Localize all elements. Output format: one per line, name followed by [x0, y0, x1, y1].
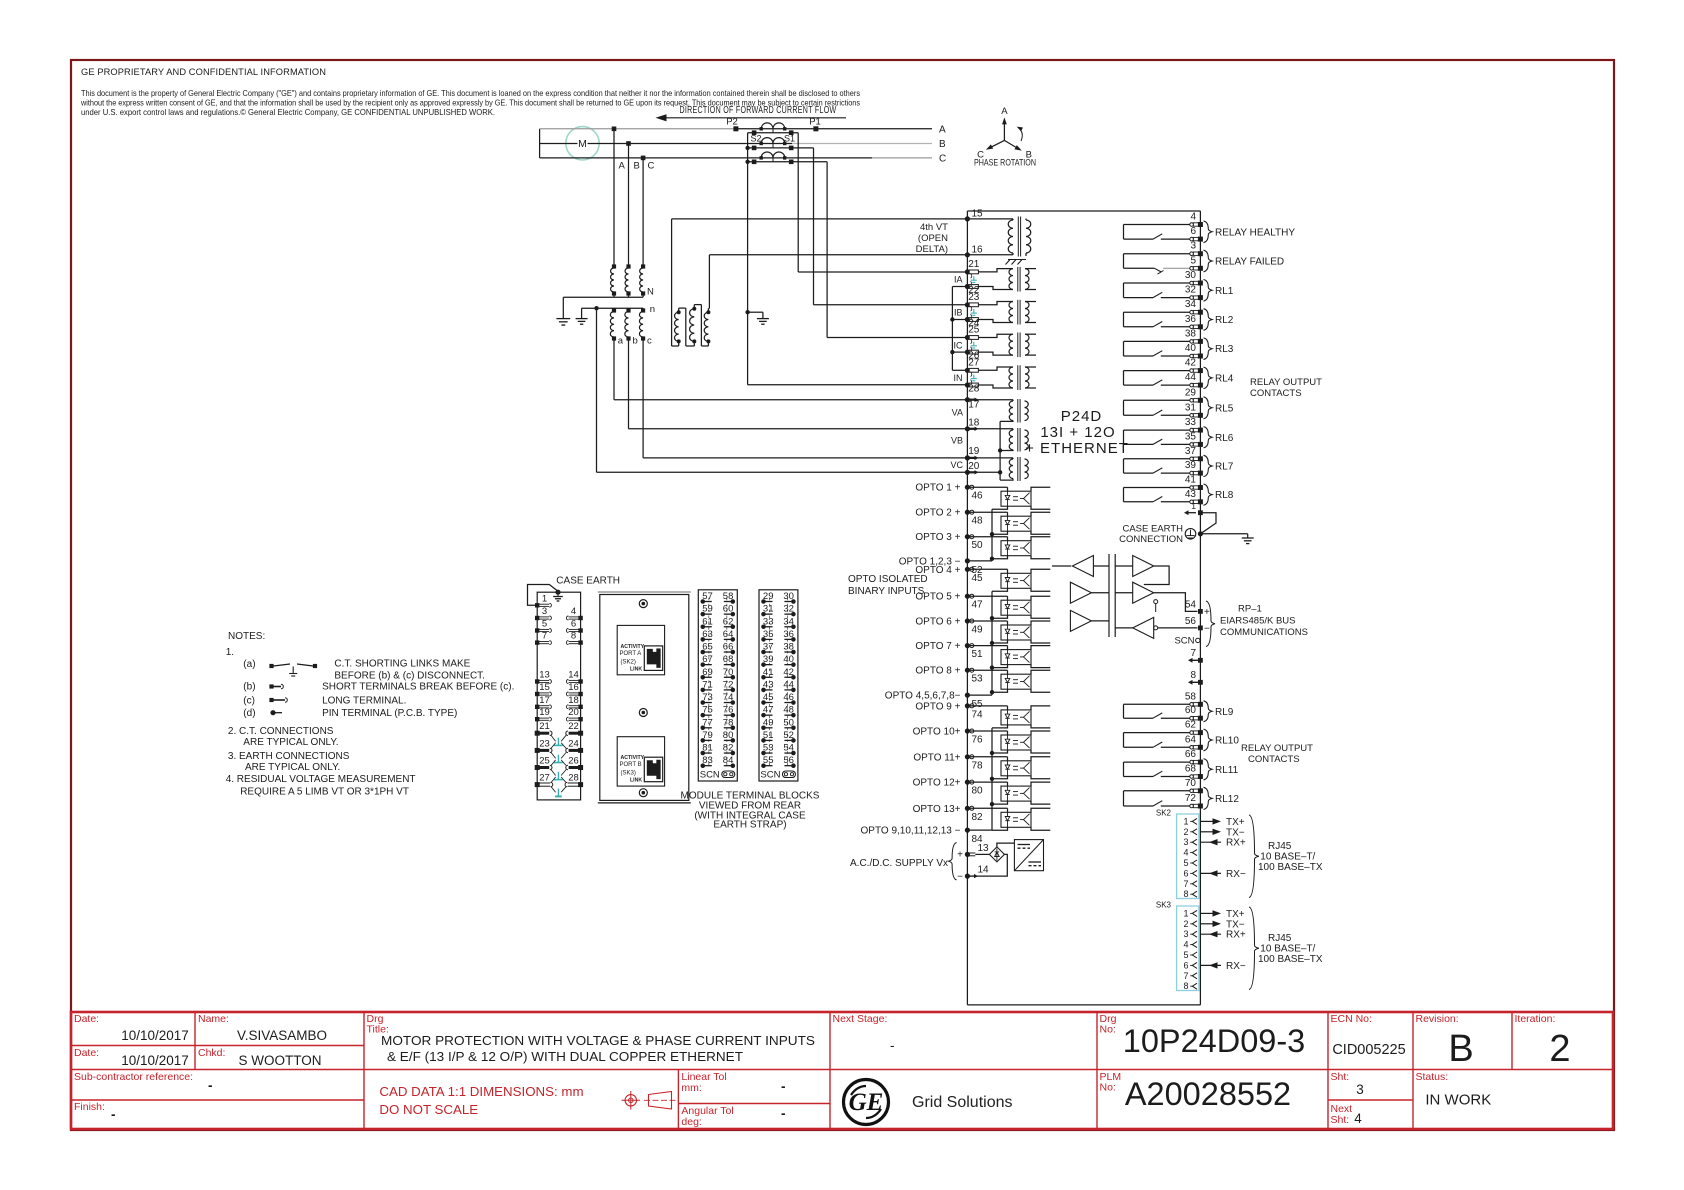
opto input OPTO5	[915, 592, 1050, 619]
svg-text:SCN: SCN	[1174, 636, 1194, 647]
svg-text:Revision:: Revision:	[1416, 1013, 1459, 1025]
svg-text:A.C./D.C. SUPPLY Vx: A.C./D.C. SUPPLY Vx	[850, 858, 948, 869]
svg-text:62: 62	[1185, 720, 1197, 731]
svg-text:PHASE ROTATION: PHASE ROTATION	[974, 158, 1036, 168]
relay output contact RELAY FAILED	[1124, 241, 1285, 274]
RS485 receiver U6	[1115, 617, 1197, 638]
CT phase B	[745, 138, 813, 151]
svg-text:RJ45: RJ45	[1268, 841, 1292, 852]
svg-text:74: 74	[972, 709, 984, 720]
svg-text:100 BASE–TX: 100 BASE–TX	[1258, 954, 1323, 965]
note 4	[226, 774, 416, 798]
wire b to terminal 18	[629, 339, 968, 429]
svg-text:OPTO 13+: OPTO 13+	[913, 804, 961, 815]
note 1	[226, 647, 234, 658]
svg-text:RL5: RL5	[1215, 403, 1234, 414]
svg-text:33: 33	[763, 616, 774, 627]
note 1c symbol	[243, 696, 287, 707]
svg-text:(SK2): (SK2)	[621, 659, 636, 665]
ethernet port SK2	[1156, 809, 1199, 900]
CT phase A	[748, 123, 799, 144]
svg-text:23: 23	[968, 292, 980, 303]
svg-text:+: +	[957, 850, 963, 861]
svg-text:1: 1	[1183, 816, 1188, 826]
svg-text:REQUIRE A 5 LIMB VT OR 3: REQUIRE A 5 LIMB VT OR 3*1PH VT	[240, 787, 409, 798]
wire CT C S1 to terminal 25	[827, 162, 967, 338]
svg-text:SCN: SCN	[700, 770, 720, 781]
module terminal block A outline	[537, 592, 580, 800]
svg-text:ECN No:: ECN No:	[1331, 1013, 1372, 1025]
svg-text:80: 80	[972, 786, 984, 797]
svg-text:ACTIVITY: ACTIVITY	[621, 644, 645, 650]
opto input OPTO1	[915, 483, 1050, 510]
svg-text:RX−: RX−	[1226, 869, 1246, 880]
module blocks caption	[681, 791, 820, 831]
relay model label P24D 13I + 12O + ETHERNET	[1025, 408, 1129, 457]
svg-text:No:: No:	[1100, 1024, 1116, 1036]
module block B SCN	[700, 770, 735, 781]
svg-text:+ ETHERNET: + ETHERNET	[1025, 440, 1129, 457]
panel screw top	[639, 600, 647, 608]
svg-text:GE PROPRIETARY AND CONFIDENTIA: GE PROPRIETARY AND CONFIDENTIAL INFORMAT…	[81, 67, 326, 77]
wire CT S2 common to terminal 28	[748, 133, 968, 385]
relay output contact RL3	[1124, 328, 1234, 359]
svg-text:Status:: Status:	[1416, 1071, 1449, 1083]
Grid Solutions wordmark	[912, 1094, 1013, 1111]
svg-text:P24D: P24D	[1061, 408, 1103, 425]
svg-text:A: A	[939, 124, 946, 135]
svg-text:57: 57	[702, 591, 713, 602]
svg-text:IN: IN	[954, 373, 963, 383]
svg-text:-: -	[781, 1079, 786, 1094]
AC DC supply terminal 13	[957, 843, 989, 861]
svg-text:4: 4	[1183, 848, 1188, 858]
svg-text:CASE EARTH: CASE EARTH	[556, 576, 620, 587]
svg-text:TX+: TX+	[1226, 817, 1245, 828]
svg-text:20: 20	[968, 461, 980, 472]
svg-text:B: B	[1448, 1028, 1473, 1070]
svg-text:49: 49	[763, 717, 774, 728]
svg-text:RP–1: RP–1	[1238, 604, 1262, 615]
svg-text:Sht:: Sht:	[1331, 1114, 1350, 1126]
voltage input terminals 17-20	[950, 397, 979, 475]
opto input OPTO10	[913, 727, 1051, 754]
wire open delta to terminal 16	[709, 255, 967, 309]
svg-text:47: 47	[763, 705, 774, 716]
svg-text:6: 6	[571, 619, 576, 630]
svg-text:42: 42	[1185, 358, 1197, 369]
svg-text:n: n	[650, 304, 655, 315]
wire phase C to VT primary	[641, 156, 646, 266]
svg-text:ACTIVITY: ACTIVITY	[621, 755, 645, 761]
svg-text:41: 41	[1185, 475, 1197, 486]
svg-text:14: 14	[568, 670, 579, 681]
SK2 signal TX+	[1200, 817, 1245, 828]
svg-text:75: 75	[702, 705, 713, 716]
relay output contact RL6	[1124, 417, 1234, 448]
VT secondary earth	[576, 308, 588, 324]
svg-text:52: 52	[783, 730, 794, 741]
svg-text:TX−: TX−	[1226, 919, 1245, 930]
svg-text:OPTO 9 +: OPTO 9 +	[915, 701, 960, 712]
svg-text:84: 84	[723, 755, 734, 766]
svg-text:37: 37	[763, 642, 774, 653]
svg-text:77: 77	[702, 717, 713, 728]
relay P24D case outline	[967, 211, 1200, 1005]
note 1d symbol	[243, 708, 282, 719]
svg-text:22: 22	[568, 721, 579, 732]
svg-text:30: 30	[1185, 270, 1197, 281]
svg-text:47: 47	[972, 600, 984, 611]
relay CT IC	[978, 333, 1036, 358]
svg-text:RJ45: RJ45	[1268, 933, 1292, 944]
svg-text:51: 51	[972, 649, 984, 660]
relay output contact RL2	[1124, 299, 1234, 330]
svg-text:40: 40	[1185, 343, 1197, 354]
phase bus A	[540, 128, 932, 130]
svg-text:LINK: LINK	[630, 778, 642, 784]
svg-text:LINK: LINK	[630, 666, 642, 672]
wire n to terminal 20	[594, 306, 967, 472]
VT primary star earth	[556, 297, 570, 325]
terminal 1 case earth stud	[1184, 501, 1203, 515]
svg-text:RL8: RL8	[1215, 490, 1234, 501]
CT primary marker P2	[726, 117, 738, 132]
svg-text:4: 4	[571, 606, 576, 617]
note 2	[228, 726, 339, 748]
svg-text:3: 3	[1356, 1082, 1364, 1097]
svg-text:P2: P2	[726, 117, 738, 128]
current input terminals 21-28 with shorting links	[954, 259, 980, 395]
relay output contact RELAY HEALTHY	[1124, 212, 1296, 243]
relay CT IA	[978, 267, 1036, 292]
RS485 isolation barrier	[1109, 554, 1115, 637]
svg-text:29: 29	[1185, 387, 1197, 398]
svg-text:(OPEN: (OPEN	[918, 233, 948, 244]
svg-text:5: 5	[1183, 950, 1188, 960]
svg-text:41: 41	[763, 667, 774, 678]
svg-text:A20028552: A20028552	[1125, 1076, 1291, 1112]
svg-text:SK3: SK3	[1156, 901, 1172, 910]
panel screw middle	[639, 709, 647, 717]
svg-text:RELAY HEALTHY: RELAY HEALTHY	[1215, 227, 1295, 238]
svg-text:OPTO ISOLATED: OPTO ISOLATED	[848, 574, 928, 585]
phase rotation symbol	[974, 106, 1036, 168]
svg-text:C: C	[648, 161, 655, 172]
RS485 driver U5	[1115, 582, 1197, 612]
svg-text:RELAY FAILED: RELAY FAILED	[1215, 257, 1284, 268]
relay output contact RL1	[1124, 270, 1234, 301]
svg-text:68: 68	[723, 654, 734, 665]
svg-text:2: 2	[1549, 1028, 1570, 1070]
svg-text:PIN TERMINAL (P.C.B. TYPE): PIN TERMINAL (P.C.B. TYPE)	[322, 708, 457, 719]
svg-text:DIRECTION OF FORWARD CURREN: DIRECTION OF FORWARD CURRENT FLOW	[680, 105, 837, 116]
RJ45 socket SK3	[617, 737, 664, 786]
relay output contact RL10	[1124, 720, 1240, 751]
title block values	[111, 1023, 1571, 1126]
svg-text:100 BASE–TX: 100 BASE–TX	[1258, 862, 1323, 873]
svg-text:OPTO 4,5,6,7,8−: OPTO 4,5,6,7,8−	[885, 691, 961, 702]
motor feed bracket	[539, 129, 541, 158]
relay output contact RL7	[1124, 446, 1234, 477]
svg-text:40: 40	[783, 654, 794, 665]
SK2 signal TX-	[1200, 827, 1245, 838]
svg-text:71: 71	[702, 679, 713, 690]
module terminal block C outline	[759, 590, 798, 781]
svg-text:This document is the property: This document is the property of General…	[81, 89, 860, 98]
svg-text:4: 4	[1190, 212, 1196, 223]
opto input OPTO4	[915, 565, 1050, 592]
svg-text:35: 35	[1185, 431, 1197, 442]
svg-text:46: 46	[783, 692, 794, 703]
RS485 driver U4	[1115, 556, 1169, 585]
svg-text:+: +	[1204, 607, 1210, 618]
direction of forward current flow label	[680, 105, 837, 116]
relay output contact RL5	[1124, 387, 1234, 419]
svg-text:56: 56	[1185, 616, 1197, 627]
opto input OPTO12	[913, 778, 1051, 805]
svg-text:10/10/2017: 10/10/2017	[121, 1028, 189, 1043]
svg-text:IC: IC	[954, 340, 964, 350]
svg-text:18: 18	[968, 418, 980, 429]
svg-text:3: 3	[1183, 837, 1188, 847]
svg-text:RELAY OUTPUT: RELAY OUTPUT	[1250, 377, 1322, 388]
svg-text:55: 55	[972, 699, 984, 710]
svg-text:31: 31	[763, 604, 774, 615]
svg-text:42: 42	[783, 667, 794, 678]
relay VT VB	[967, 428, 1028, 452]
opto input OPTO6	[915, 617, 1050, 644]
VT wye secondary windings	[582, 304, 655, 347]
svg-text:6: 6	[1183, 960, 1188, 970]
svg-text:19: 19	[539, 707, 550, 718]
svg-text:CONTACTS: CONTACTS	[1250, 388, 1302, 399]
svg-text:10 BASE–T/: 10 BASE–T/	[1260, 944, 1315, 955]
svg-text:PORT B: PORT B	[620, 762, 642, 768]
svg-text:25: 25	[539, 756, 550, 767]
svg-text:39: 39	[763, 654, 774, 665]
first angle projection symbol	[622, 1091, 677, 1110]
svg-text:OPTO 11+: OPTO 11+	[913, 752, 960, 763]
svg-text:66: 66	[723, 642, 734, 653]
svg-text:7: 7	[1190, 648, 1196, 659]
svg-text:CID005225: CID005225	[1332, 1042, 1405, 1058]
svg-text:73: 73	[702, 692, 713, 703]
svg-text:COMMUNICATIONS: COMMUNICATIONS	[1220, 627, 1308, 638]
svg-text:SHORT TERMINALS BREAK BEFORE (: SHORT TERMINALS BREAK BEFORE (c).	[322, 682, 514, 693]
svg-text:OPTO 9,10,11,12,13 −: OPTO 9,10,11,12,13 −	[861, 826, 961, 837]
4th VT label	[916, 222, 949, 255]
svg-text:23: 23	[539, 738, 550, 749]
svg-text:-: -	[111, 1107, 116, 1122]
svg-text:60: 60	[1185, 705, 1197, 716]
direction arrow	[656, 114, 847, 121]
SK3 signal TX-	[1200, 919, 1245, 930]
svg-text:1: 1	[1183, 908, 1188, 918]
svg-text:38: 38	[1185, 328, 1197, 339]
svg-text:32: 32	[1185, 285, 1197, 296]
svg-text:RL3: RL3	[1215, 344, 1234, 355]
SK3 signal TX+	[1200, 909, 1245, 920]
svg-text:32: 32	[783, 604, 794, 615]
svg-text:79: 79	[702, 730, 713, 741]
svg-text:37: 37	[1185, 446, 1197, 457]
svg-text:15: 15	[539, 682, 550, 693]
svg-text:27: 27	[968, 357, 980, 368]
svg-text:58: 58	[723, 591, 734, 602]
svg-text:P1: P1	[809, 117, 821, 128]
svg-text:48: 48	[972, 516, 984, 527]
svg-text:(d): (d)	[243, 708, 255, 719]
svg-text:67: 67	[702, 654, 713, 665]
svg-text:58: 58	[1185, 691, 1197, 702]
svg-text:RL11: RL11	[1215, 765, 1239, 776]
title block labels	[74, 1013, 1555, 1128]
wire phase B to VT primary	[626, 141, 631, 266]
svg-text:78: 78	[723, 717, 734, 728]
svg-text:62: 62	[723, 616, 734, 627]
terminal 15	[965, 209, 983, 222]
svg-text:LONG TERMINAL.: LONG TERMINAL.	[322, 696, 406, 707]
svg-text:SK2: SK2	[1156, 809, 1172, 818]
module terminal block B outline	[698, 590, 737, 781]
RS485 buffer U3	[1070, 610, 1109, 631]
svg-text:76: 76	[972, 735, 984, 746]
svg-text:ARE TYPICAL ONLY.: ARE TYPICAL ONLY.	[245, 762, 340, 773]
module block B terminals	[701, 591, 736, 768]
svg-text:6: 6	[1190, 226, 1196, 237]
svg-text:-: -	[208, 1078, 213, 1093]
svg-text:7: 7	[1183, 971, 1188, 981]
svg-text:82: 82	[723, 743, 734, 754]
svg-text:69: 69	[702, 667, 713, 678]
svg-text:16: 16	[568, 682, 579, 693]
note 1a text	[334, 659, 485, 682]
note 1b symbol	[243, 682, 283, 693]
proprietary note text	[80, 67, 860, 117]
phase labels A B C right	[939, 124, 946, 164]
svg-text:RX+: RX+	[1226, 930, 1246, 941]
svg-text:72: 72	[1185, 793, 1197, 804]
svg-text:1: 1	[542, 593, 547, 604]
svg-text:TX−: TX−	[1226, 827, 1245, 838]
RP-1 terminal 54	[1185, 600, 1210, 619]
svg-text:53: 53	[763, 743, 774, 754]
svg-text:5: 5	[1183, 858, 1188, 868]
svg-text:2: 2	[1183, 919, 1188, 929]
svg-text:a: a	[618, 336, 624, 347]
RP-1 terminal 56	[1185, 616, 1210, 635]
svg-text:2: 2	[1183, 827, 1188, 837]
svg-text:64: 64	[1185, 734, 1197, 745]
opto input OPTO13	[913, 804, 1051, 831]
opto input OPTO9	[915, 701, 1050, 728]
svg-text:4th VT: 4th VT	[920, 222, 948, 233]
svg-text:78: 78	[972, 760, 984, 771]
svg-text:18: 18	[568, 695, 579, 706]
CT earth tap	[745, 310, 769, 324]
opto input OPTO11	[913, 752, 1050, 779]
svg-text:8: 8	[1183, 981, 1188, 991]
svg-text:24: 24	[568, 738, 579, 749]
svg-text:49: 49	[972, 625, 984, 636]
svg-text:3: 3	[1190, 241, 1196, 252]
relay output contact RL4	[1124, 358, 1234, 389]
svg-text:OPTO 2 +: OPTO 2 +	[915, 508, 960, 519]
RS485 buffer U1	[1052, 556, 1109, 577]
svg-text:10 BASE–T/: 10 BASE–T/	[1260, 852, 1315, 863]
svg-text:36: 36	[1185, 314, 1197, 325]
svg-text:29: 29	[763, 591, 774, 602]
svg-text:17: 17	[539, 695, 550, 706]
motor label M	[578, 138, 587, 150]
svg-text:OPTO 3 +: OPTO 3 +	[915, 532, 960, 543]
wire phase A to VT primary	[612, 127, 617, 267]
supply label	[850, 843, 957, 880]
svg-text:BINARY INPUTS: BINARY INPUTS	[848, 586, 925, 597]
svg-text:20: 20	[568, 707, 579, 718]
svg-text:43: 43	[763, 679, 774, 690]
svg-text:B: B	[939, 139, 946, 150]
relay output contact RL8	[1124, 475, 1234, 506]
terminal 16	[965, 244, 983, 257]
svg-text:Finish:: Finish:	[74, 1101, 105, 1113]
opto input OPTO2	[915, 508, 1050, 535]
svg-text:33: 33	[1185, 417, 1197, 428]
svg-text:VC: VC	[950, 460, 963, 470]
panel screw bottom	[639, 789, 647, 797]
svg-text:35: 35	[763, 629, 774, 640]
svg-text:RL1: RL1	[1215, 286, 1234, 297]
relay output contact RL9	[1124, 691, 1234, 721]
svg-text:10P24D09-3: 10P24D09-3	[1123, 1023, 1306, 1059]
svg-text:46: 46	[972, 491, 984, 502]
svg-text:Iteration:: Iteration:	[1515, 1013, 1556, 1025]
svg-text:RL12: RL12	[1215, 794, 1239, 805]
svg-text:16: 16	[972, 244, 984, 255]
title block frame	[71, 1012, 1613, 1129]
relay output contact RL11	[1124, 749, 1239, 780]
svg-text:50: 50	[972, 540, 984, 551]
svg-text:4. RESIDUAL VOLTAGE MEASURE: 4. RESIDUAL VOLTAGE MEASUREMENT	[226, 774, 416, 785]
svg-text:Sub-contractor reference:: Sub-contractor reference:	[74, 1071, 193, 1083]
svg-text:15: 15	[972, 209, 984, 220]
notes heading	[228, 631, 265, 642]
svg-text:38: 38	[783, 642, 794, 653]
AC DC supply terminal 14	[957, 865, 989, 883]
svg-text:(b): (b)	[243, 682, 255, 693]
svg-text:(a): (a)	[243, 659, 255, 670]
svg-text:26: 26	[568, 756, 579, 767]
svg-text:5: 5	[542, 619, 547, 630]
svg-text:BEFORE (b) & (c) DISCONNECT.: BEFORE (b) & (c) DISCONNECT.	[334, 671, 485, 682]
svg-text:OPTO 12+: OPTO 12+	[913, 778, 961, 789]
svg-text:C: C	[939, 153, 946, 164]
relay CT IN	[978, 365, 1036, 390]
svg-text:RL4: RL4	[1215, 373, 1234, 384]
svg-text:Date:: Date:	[74, 1047, 99, 1059]
svg-text:−: −	[957, 872, 963, 883]
svg-text:21: 21	[539, 721, 550, 732]
VT wye primary windings	[563, 264, 654, 297]
svg-text:Sht:: Sht:	[1331, 1071, 1350, 1083]
svg-text:39: 39	[1185, 460, 1197, 471]
svg-text:A: A	[619, 161, 626, 172]
svg-text:-: -	[781, 1106, 786, 1121]
svg-text:6: 6	[1183, 868, 1188, 878]
svg-text:Grid Solutions: Grid Solutions	[912, 1094, 1013, 1111]
svg-text:21: 21	[968, 259, 980, 270]
